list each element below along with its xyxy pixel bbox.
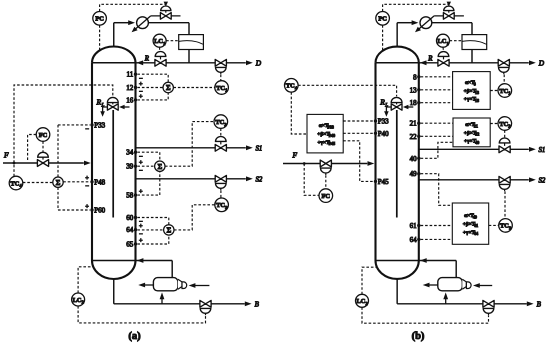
- svg-text:L: L: [384, 103, 388, 108]
- svg-text:TC: TC: [499, 121, 508, 128]
- svg-text:FC: FC: [39, 132, 48, 139]
- svg-text:Σ: Σ: [166, 227, 171, 235]
- svg-text:1: 1: [225, 88, 227, 93]
- svg-text:2: 2: [508, 124, 510, 129]
- svg-text:B: B: [255, 300, 260, 308]
- svg-text:S2: S2: [256, 176, 263, 183]
- svg-text:D: D: [538, 58, 545, 67]
- svg-text:Σ: Σ: [166, 84, 171, 92]
- svg-text:1: 1: [446, 41, 448, 46]
- svg-text:12: 12: [126, 84, 134, 92]
- svg-text:49: 49: [410, 170, 418, 178]
- svg-text:1: 1: [508, 91, 510, 96]
- svg-text:R: R: [427, 55, 433, 62]
- svg-text:TC: TC: [500, 223, 509, 230]
- svg-text:R: R: [144, 55, 150, 62]
- svg-text:2: 2: [365, 301, 367, 306]
- svg-text:22: 22: [475, 132, 479, 137]
- svg-text:PC: PC: [378, 16, 387, 23]
- svg-text:64: 64: [410, 236, 418, 244]
- svg-text:22: 22: [410, 133, 418, 141]
- svg-text:B: B: [537, 300, 542, 308]
- svg-text:P33: P33: [327, 125, 333, 130]
- svg-text:2: 2: [82, 300, 84, 305]
- svg-text:16: 16: [126, 96, 134, 104]
- svg-text:40: 40: [475, 140, 479, 145]
- svg-text:P33: P33: [378, 118, 389, 126]
- svg-text:(a): (a): [128, 331, 141, 342]
- svg-text:61: 61: [410, 222, 418, 230]
- svg-text:40: 40: [410, 155, 418, 163]
- svg-text:65: 65: [126, 241, 134, 249]
- svg-text:S1: S1: [539, 147, 546, 154]
- svg-text:+: +: [139, 188, 143, 195]
- svg-text:PC: PC: [95, 16, 104, 23]
- svg-text:Σ: Σ: [56, 179, 61, 187]
- svg-text:+: +: [139, 237, 143, 244]
- svg-text:F: F: [3, 150, 9, 159]
- svg-text:S2: S2: [539, 177, 546, 184]
- svg-text:+: +: [85, 175, 89, 182]
- svg-text:LC: LC: [357, 298, 366, 305]
- svg-text:64: 64: [474, 231, 478, 236]
- svg-text:TC: TC: [499, 88, 508, 95]
- svg-text:8: 8: [413, 73, 417, 81]
- svg-text:F: F: [292, 150, 298, 159]
- svg-text:+: +: [139, 81, 143, 88]
- svg-text:LC: LC: [438, 38, 447, 45]
- svg-text:34: 34: [126, 149, 134, 157]
- svg-text:+: +: [139, 93, 143, 100]
- svg-text:+: +: [139, 160, 143, 167]
- svg-text:21: 21: [410, 120, 418, 128]
- svg-text:1: 1: [163, 41, 165, 46]
- svg-text:64: 64: [126, 226, 134, 234]
- svg-text:2: 2: [224, 122, 226, 127]
- svg-text:P40: P40: [329, 133, 335, 138]
- svg-text:8: 8: [474, 82, 476, 87]
- svg-text:S1: S1: [256, 145, 263, 152]
- svg-text:LC: LC: [154, 38, 163, 45]
- svg-text:39: 39: [126, 163, 134, 171]
- svg-text:60: 60: [126, 214, 134, 222]
- svg-text:+: +: [85, 204, 89, 211]
- svg-text:P48: P48: [94, 178, 105, 186]
- svg-text:P45: P45: [329, 141, 335, 146]
- svg-text:FC: FC: [322, 193, 331, 200]
- svg-text:+: +: [139, 223, 143, 230]
- svg-text:(b): (b): [412, 331, 425, 342]
- svg-text:TC: TC: [11, 180, 20, 187]
- svg-text:Σ: Σ: [157, 163, 162, 171]
- svg-text:P45: P45: [378, 178, 389, 186]
- svg-text:TC: TC: [216, 85, 225, 92]
- svg-text:61: 61: [474, 223, 478, 228]
- svg-text:−: −: [139, 167, 143, 174]
- svg-text:18: 18: [475, 98, 479, 103]
- svg-text:P40: P40: [378, 130, 389, 138]
- svg-text:13: 13: [410, 86, 418, 94]
- svg-text:P60: P60: [94, 207, 105, 215]
- svg-text:−: −: [85, 183, 89, 190]
- svg-text:13: 13: [475, 90, 479, 95]
- svg-text:TC: TC: [216, 202, 225, 209]
- svg-text:−: −: [85, 126, 89, 133]
- svg-text:58: 58: [126, 192, 134, 200]
- svg-text:LC: LC: [73, 297, 82, 304]
- svg-text:21: 21: [474, 123, 478, 128]
- svg-text:TC: TC: [215, 119, 224, 126]
- svg-text:D: D: [255, 58, 262, 67]
- svg-text:18: 18: [410, 99, 418, 107]
- svg-text:49: 49: [473, 215, 477, 220]
- svg-text:11: 11: [127, 71, 134, 79]
- svg-text:TC: TC: [286, 83, 295, 90]
- svg-text:L: L: [101, 103, 105, 108]
- svg-text:P33: P33: [94, 121, 105, 129]
